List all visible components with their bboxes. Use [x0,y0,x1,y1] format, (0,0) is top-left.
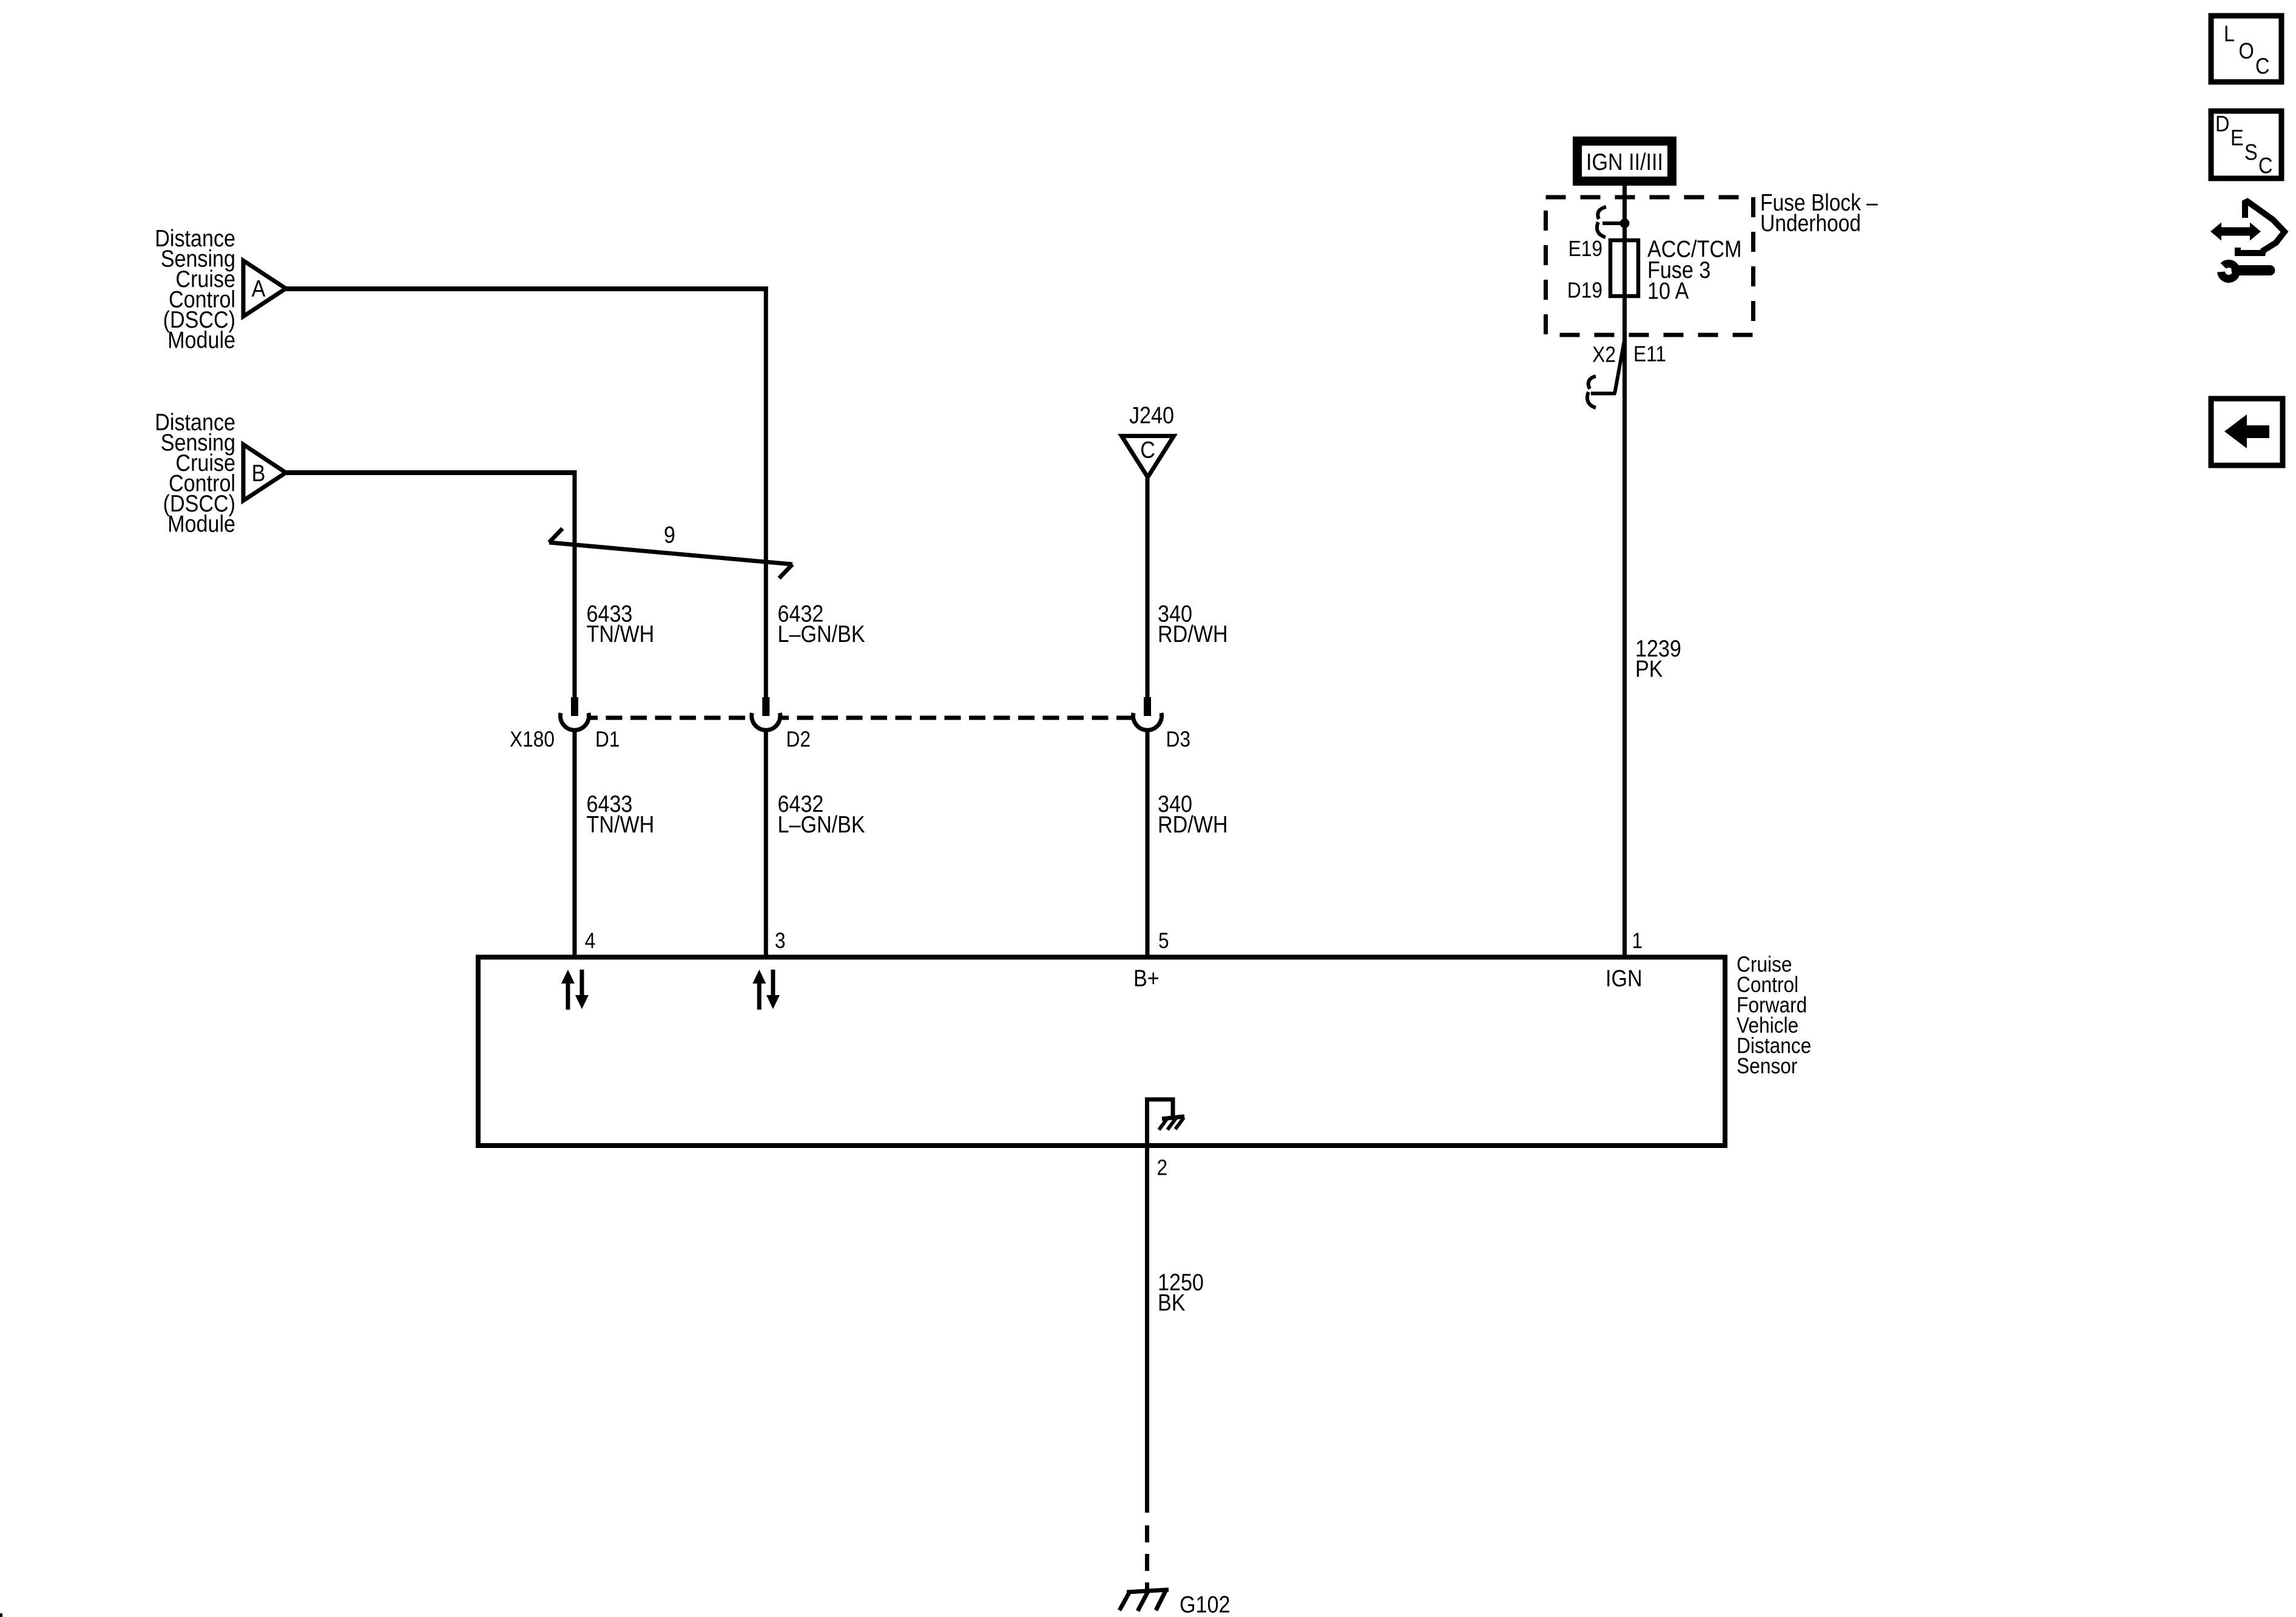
signal arrows pin 4 up arrow [566,982,570,1010]
label D1 [595,727,620,752]
svg-text:6432L–GN/BK: 6432L–GN/BK [778,601,866,647]
connector X2/E11 hook upper arc [1589,376,1596,389]
wire 340 RD/WH upper (J240 down to connector D3) [1146,478,1150,698]
svg-text:L: L [2224,21,2235,46]
harness crossing line 9 [549,542,792,564]
wire 6432 L-GN/BK lower (D2 to sensor pin 3) [764,731,768,959]
DSCC module A pin letter A [252,275,266,302]
harness crossing hook left [549,528,562,542]
svg-text:D3: D3 [1166,727,1190,752]
svg-text:ACC/TCMFuse 310 A: ACC/TCMFuse 310 A [1647,236,1741,305]
svg-text:340RD/WH: 340RD/WH [1158,791,1228,838]
internal chassis ground teeth [1159,1118,1167,1130]
sensor label Cruise Control Forward Vehicle Distance Sensor [1737,953,1811,1079]
signal arrows pin 4 down arrow [580,970,584,996]
svg-text:6432L–GN/BK: 6432L–GN/BK [778,791,866,838]
wire label 6433 TN/WH lower [587,791,655,838]
connector X180 pin D2 terminal [762,697,769,716]
label Fuse Block - Underhood [1760,189,1879,237]
label J240 [1129,402,1174,429]
svg-text:C: C [2255,54,2270,79]
wire label 1250 BK [1158,1269,1204,1316]
icon jump-to-wiring hook outline [2238,201,2284,253]
wire label 340 RD/WH lower [1158,791,1228,838]
svg-text:D19: D19 [1567,279,1602,303]
svg-text:C: C [2258,154,2273,178]
label 9 [664,522,675,549]
svg-text:6433TN/WH: 6433TN/WH [587,601,655,647]
DSCC module B pin letter B [252,460,266,487]
page corner dot [0,1613,2,1617]
signal arrows pin 3 up arrow [757,982,761,1010]
svg-text:D1: D1 [595,727,620,752]
wire B horizontal (DSCC B to corner) [284,470,577,475]
wire label 6433 TN/WH upper [587,601,655,647]
wire 1250 BK (sensor pin 2 down) [1145,1143,1149,1513]
svg-text:E11: E11 [1633,342,1666,366]
DSCC module B triangle [243,445,286,501]
connector X180 cup D1 [561,713,589,730]
label E19 [1568,237,1602,261]
svg-text:4: 4 [585,928,596,953]
Cruise Control Forward Vehicle Distance Sensor box [478,957,1725,1146]
label ACC/TCM Fuse 3 10 A [1647,236,1741,305]
fuse block underhood dashed box [1546,197,1754,335]
wire 6433 TN/WH lower (D1 to sensor pin 4) [573,731,577,959]
switch feed hook horizontal lead [1602,221,1621,225]
icon DESC box [2211,111,2281,178]
svg-text:1239PK: 1239PK [1635,635,1681,682]
internal ground stub wire [1147,1099,1173,1144]
label X180 [510,727,555,752]
svg-text:Fuse Block –Underhood: Fuse Block –Underhood [1760,189,1879,237]
ground G102 teeth [1119,1592,1130,1610]
svg-text:E19: E19 [1568,237,1602,261]
wire A vertical (corner down to connector D2) [764,286,768,698]
svg-text:DistanceSensingCruiseControl(D: DistanceSensingCruiseControl(DSCC)Module [155,409,235,537]
connector X2/E11 hook lower arc [1587,392,1596,408]
svg-text:E: E [2230,126,2244,150]
label D2 [786,727,811,752]
svg-text:B: B [252,460,266,487]
svg-text:DistanceSensingCruiseControl(D: DistanceSensingCruiseControl(DSCC)Module [155,225,235,353]
connector X180 dashed harness line right segment [780,716,1132,720]
junction J240 triangle C (points down) [1122,436,1174,478]
svg-text:J240: J240 [1129,402,1174,429]
connector X2/E11 diagonal [1615,337,1625,394]
svg-text:2: 2 [1157,1156,1168,1180]
icon LOC box [2211,16,2281,82]
svg-text:A: A [252,275,266,302]
label pin 5 [1158,928,1169,953]
svg-text:IGN: IGN [1606,965,1643,991]
svg-text:1250BK: 1250BK [1158,1269,1204,1316]
connector X180 cup D3 [1133,713,1162,730]
connector X180 pin D1 terminal [571,697,578,716]
wire B vertical (corner down to connector D1) [573,470,577,698]
label IGN [1606,965,1643,991]
label X2 [1592,343,1616,367]
connector X180 dashed harness line left segment [589,716,751,720]
fuse ACC/TCM Fuse 3 10A [1610,240,1638,296]
svg-text:O: O [2239,39,2254,64]
label pin 2 [1157,1156,1168,1180]
icon back-arrow box [2211,399,2283,465]
wire 1250 BK dashed continuation [1145,1525,1149,1542]
wire label 1239 PK [1635,635,1681,682]
label E11 [1633,342,1666,366]
switch feed hook lower arc [1597,222,1606,237]
svg-text:B+: B+ [1133,965,1160,991]
icon LOC letters [2224,21,2235,46]
label pin 1 [1632,928,1643,953]
DSCC module A triangle [243,261,286,317]
connector X180 pin D3 terminal [1144,697,1151,716]
svg-text:D2: D2 [786,727,811,752]
wire A horizontal (DSCC A to corner) [284,286,768,291]
wire label 6432 L-GN/BK upper [778,601,866,647]
wire label 6432 L-GN/BK lower [778,791,866,838]
icon back-arrow [2224,414,2269,448]
signal arrows pin 3 down arrow [771,970,775,996]
svg-text:X2: X2 [1592,343,1616,367]
switch feed hook upper arc [1598,207,1606,219]
label D19 [1567,279,1602,303]
svg-text:IGN II/III: IGN II/III [1586,149,1663,175]
connector X2/E11 horizontal lead [1591,392,1616,396]
wire IGN feed vertical (IGN II/III down to sensor pin 1) [1622,184,1627,959]
svg-text:3: 3 [775,928,786,953]
svg-text:X180: X180 [510,727,555,752]
label pin 3 [775,928,786,953]
wire 340 RD/WH lower (D3 to sensor pin 5) [1146,731,1150,959]
svg-text:9: 9 [664,522,675,549]
svg-text:D: D [2215,112,2230,137]
label IGN II/III [1586,149,1663,175]
svg-text:1: 1 [1632,928,1643,953]
junction dot in fuse block [1620,218,1630,228]
svg-text:5: 5 [1158,928,1169,953]
internal chassis ground bar [1162,1116,1184,1119]
svg-text:340RD/WH: 340RD/WH [1158,601,1228,647]
svg-text:G102: G102 [1180,1592,1230,1617]
harness crossing hook right [779,564,792,578]
svg-text:C: C [1140,437,1155,464]
label G102 [1180,1592,1230,1617]
J240 pin letter C [1140,437,1155,464]
connector X180 cup D2 [752,713,780,730]
label D3 [1166,727,1190,752]
DSCC module B label [155,409,235,537]
svg-text:S: S [2244,140,2258,165]
ground G102 bar [1127,1590,1169,1592]
svg-text:6433TN/WH: 6433TN/WH [587,791,655,838]
power feed IGN II/III box [1573,137,1676,186]
DSCC module A label [155,225,235,353]
wire label 340 RD/WH upper [1158,601,1228,647]
label B+ [1133,965,1160,991]
label pin 4 [585,928,596,953]
icon wrench [2221,264,2237,279]
icon jump-to-wiring double arrow [2210,223,2261,241]
svg-text:CruiseControlForwardVehicleDis: CruiseControlForwardVehicleDistanceSenso… [1737,953,1811,1079]
icon DESC letters [2215,112,2230,137]
